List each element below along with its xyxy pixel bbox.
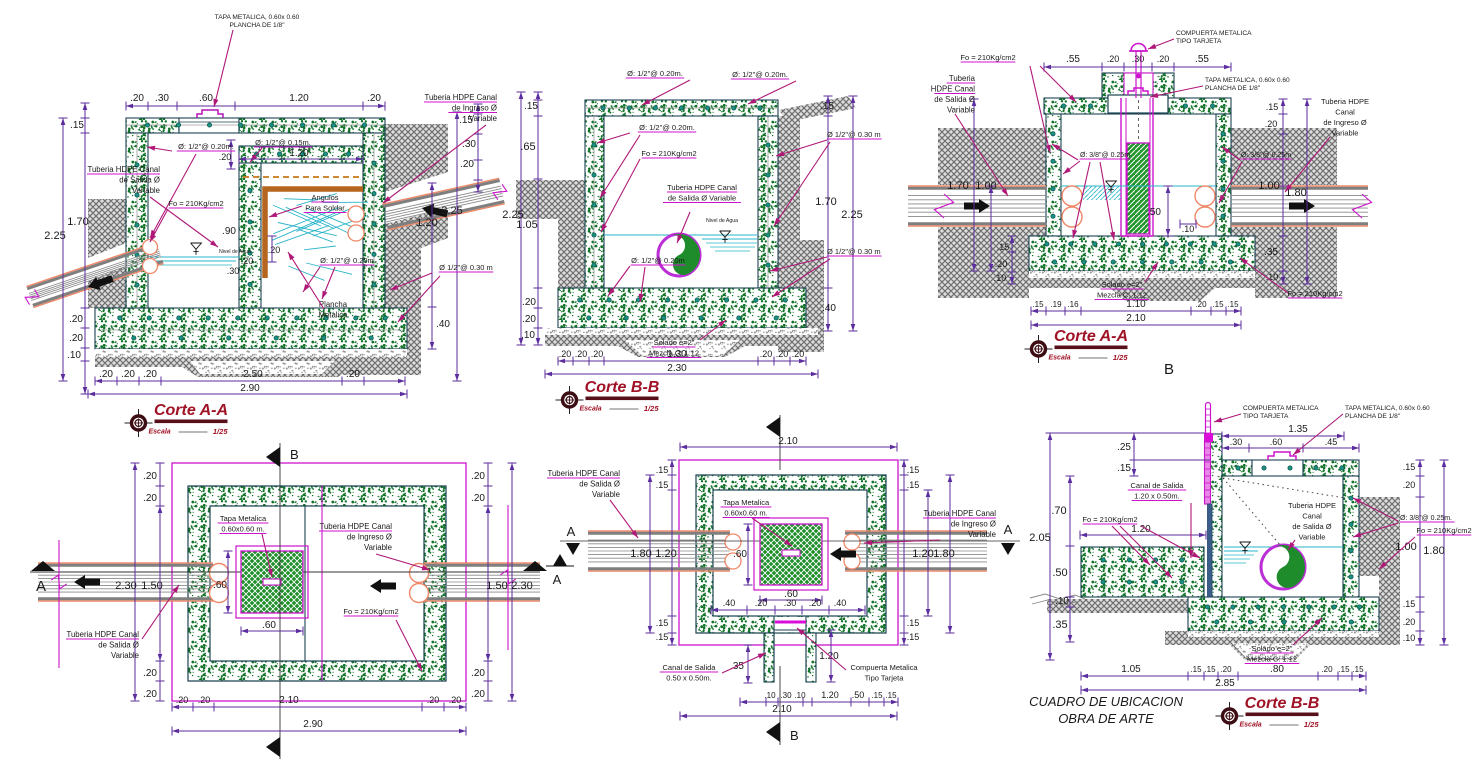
svg-text:Variable: Variable bbox=[469, 114, 497, 123]
svg-text:.20: .20 bbox=[522, 297, 536, 308]
dim right 180 C bbox=[1306, 99, 1308, 284]
water lines left chamber bbox=[150, 256, 240, 258]
inlet pipe C right bbox=[1231, 225, 1368, 227]
section axis B vertical D bbox=[279, 443, 281, 759]
svg-text:Ø: 1/2"@ 0.20m.: Ø: 1/2"@ 0.20m. bbox=[732, 70, 788, 79]
rebar dots right wall bbox=[372, 161, 376, 165]
svg-text:2.25: 2.25 bbox=[502, 209, 523, 221]
dim left chain C bbox=[1011, 236, 1013, 284]
rebar dots inner wall bbox=[248, 189, 252, 193]
dim 2.25 B left bbox=[520, 92, 522, 345]
svg-text:1.70: 1.70 bbox=[67, 216, 88, 228]
hatch under platform F bbox=[1047, 599, 1188, 613]
section axis A-A horizontal D bbox=[30, 571, 540, 573]
svg-text:B: B bbox=[1164, 361, 1174, 378]
leader tapa bbox=[214, 30, 233, 107]
solado gray band bbox=[95, 349, 407, 377]
svg-text:.20: .20 bbox=[219, 152, 232, 162]
leader solado F bbox=[1293, 618, 1322, 645]
dim left chain E bbox=[671, 460, 673, 645]
gate lower blade F bbox=[1208, 504, 1213, 597]
svg-text:2.50: 2.50 bbox=[243, 369, 263, 380]
dim top row F bbox=[1222, 447, 1359, 449]
leader Fo C bottom bbox=[1240, 258, 1288, 293]
dim 2.05 F bbox=[1049, 433, 1051, 660]
dim bottom row E bbox=[740, 701, 898, 703]
svg-text:.40: .40 bbox=[723, 598, 736, 608]
dim 1.80 right E bbox=[949, 475, 951, 633]
svg-text:.20: .20 bbox=[367, 93, 381, 104]
svg-text:1.20: 1.20 bbox=[821, 690, 839, 700]
plan inner area E bbox=[713, 490, 867, 616]
svg-text:.30: .30 bbox=[462, 139, 476, 150]
dim line left chain bbox=[84, 103, 86, 394]
svg-text:de Ingreso Ø: de Ingreso Ø bbox=[951, 520, 996, 529]
svg-text:Variable: Variable bbox=[592, 490, 620, 499]
pipe break left D bbox=[58, 540, 60, 668]
dim 1.80 left E bbox=[649, 475, 651, 633]
leader solado C bbox=[1145, 262, 1158, 282]
svg-text:2.90: 2.90 bbox=[303, 719, 323, 730]
svg-text:Nivel de Agua: Nivel de Agua bbox=[706, 218, 738, 224]
floor slab B bbox=[558, 288, 806, 328]
leader tuberia ingreso E bbox=[864, 540, 940, 543]
svg-text:Compuerta Metalica: Compuerta Metalica bbox=[850, 663, 918, 672]
outlet pipe C left bbox=[908, 225, 1046, 227]
rebar dots slab B bbox=[601, 106, 605, 110]
hatch earth right above pipe C bbox=[1231, 128, 1337, 185]
svg-text:.65: .65 bbox=[520, 141, 535, 153]
leader rebar 030 b bbox=[398, 276, 440, 322]
leader tapa D bbox=[262, 534, 272, 577]
svg-text:Fo = 210Kg/cm2: Fo = 210Kg/cm2 bbox=[641, 149, 696, 158]
leader B right top a bbox=[776, 140, 827, 156]
svg-text:Tuberia HDPE: Tuberia HDPE bbox=[1321, 97, 1369, 106]
hatch earth right below inlet pipe bbox=[385, 208, 448, 308]
leader rebar wall b bbox=[150, 154, 196, 238]
svg-text:Canal: Canal bbox=[1335, 108, 1355, 117]
dotted sight line F b bbox=[1223, 478, 1345, 498]
svg-text:.20: .20 bbox=[591, 349, 604, 359]
svg-text:.20: .20 bbox=[460, 159, 474, 170]
svg-text:.15: .15 bbox=[871, 691, 883, 700]
svg-text:.19: .19 bbox=[1050, 300, 1062, 309]
svg-text:.15: .15 bbox=[1266, 102, 1279, 112]
dim 1.20 right E bbox=[927, 490, 929, 616]
svg-text:.20: .20 bbox=[1220, 665, 1232, 674]
svg-text:de Salida Ø: de Salida Ø bbox=[98, 641, 139, 650]
svg-text:.20: .20 bbox=[1157, 54, 1170, 64]
svg-text:.50: .50 bbox=[1147, 207, 1161, 218]
rebar dots floor bbox=[118, 316, 122, 320]
rebar dots platform F bbox=[1101, 558, 1105, 562]
hatch earth right above inlet pipe bbox=[385, 124, 448, 192]
svg-text:.20: .20 bbox=[143, 369, 157, 380]
tapa handle F bbox=[1268, 452, 1296, 460]
svg-text:Canal de Salida: Canal de Salida bbox=[663, 663, 717, 672]
outlet pipe bell flange bbox=[143, 240, 158, 255]
dim bottom row2 E bbox=[680, 715, 897, 717]
svg-text:.60: .60 bbox=[213, 580, 227, 591]
svg-text:Ø 1/2"@ 0.30 m: Ø 1/2"@ 0.30 m bbox=[439, 263, 493, 272]
outlet pipe bells D bbox=[210, 564, 229, 583]
svg-text:1.20: 1.20 bbox=[655, 548, 676, 560]
leader angulos bbox=[269, 206, 302, 217]
svg-text:Ø: 1/2"@ 0.20m.: Ø: 1/2"@ 0.20m. bbox=[627, 69, 683, 78]
solado band F bbox=[1165, 631, 1379, 660]
leader compuerta C bbox=[1148, 39, 1174, 49]
hatch diagonal streak top right B bbox=[779, 96, 856, 122]
svg-text:.45: .45 bbox=[1325, 437, 1338, 447]
leader rebar floor a bbox=[303, 267, 320, 292]
svg-text:.15: .15 bbox=[1403, 462, 1416, 472]
section marker B top D bbox=[266, 447, 280, 467]
svg-text:Para Soldar: Para Soldar bbox=[305, 204, 345, 213]
svg-text:Variable: Variable bbox=[111, 651, 139, 660]
svg-text:1.80: 1.80 bbox=[933, 548, 954, 560]
svg-text:1/25: 1/25 bbox=[213, 427, 228, 436]
svg-text:COMPUERTA METALICA: COMPUERTA METALICA bbox=[1176, 30, 1252, 37]
water line C bbox=[1061, 185, 1216, 187]
svg-text:Canal: Canal bbox=[1302, 512, 1322, 521]
dim line 2.25 left bbox=[62, 118, 64, 381]
svg-text:.15: .15 bbox=[1117, 463, 1131, 474]
svg-text:Ø 1/2"@ 0.30 m: Ø 1/2"@ 0.30 m bbox=[827, 247, 881, 256]
svg-text:2.25: 2.25 bbox=[441, 205, 462, 217]
svg-text:TAPA METALICA, 0.60x 0.60: TAPA METALICA, 0.60x 0.60 bbox=[215, 14, 300, 21]
outlet yin-yang F bbox=[1261, 545, 1305, 589]
svg-text:Solado e=2": Solado e=2" bbox=[654, 338, 695, 347]
rebar dots floor F bbox=[1206, 605, 1210, 609]
svg-text:.50: .50 bbox=[852, 690, 865, 700]
dim .60 below square E bbox=[760, 599, 822, 601]
leader rebar right F b bbox=[1353, 523, 1398, 537]
water line F bbox=[1224, 546, 1343, 548]
outlet flow arrow C bbox=[964, 199, 990, 213]
top slab right segment F bbox=[1303, 460, 1359, 476]
canal opening in ring E bbox=[775, 617, 806, 632]
svg-text:Variable: Variable bbox=[947, 106, 975, 115]
pipe break right D bbox=[507, 505, 509, 650]
leader rebar gate c bbox=[1073, 162, 1090, 238]
dim .60 square left D bbox=[227, 551, 229, 613]
svg-text:.20: .20 bbox=[143, 493, 157, 504]
water hatch C bbox=[1083, 186, 1121, 200]
svg-text:Fo = 210Kg/cm2: Fo = 210Kg/cm2 bbox=[1287, 289, 1342, 298]
dim left ticks D bbox=[159, 463, 161, 506]
svg-text:0.60x0.60 m.: 0.60x0.60 m. bbox=[724, 509, 767, 518]
leader rebar wall B b bbox=[600, 135, 640, 198]
svg-text:.50: .50 bbox=[1052, 567, 1067, 579]
svg-text:.30: .30 bbox=[780, 691, 792, 700]
svg-text:.20: .20 bbox=[198, 695, 211, 705]
leader Fo C a bbox=[1040, 66, 1076, 102]
svg-text:.20: .20 bbox=[1195, 300, 1207, 309]
svg-text:.15: .15 bbox=[820, 101, 834, 112]
svg-text:de Salida Ø Variable: de Salida Ø Variable bbox=[668, 194, 736, 203]
svg-text:.15: .15 bbox=[907, 632, 920, 642]
svg-text:Tuberia HDPE Canal: Tuberia HDPE Canal bbox=[66, 630, 139, 639]
svg-text:.35: .35 bbox=[1264, 247, 1278, 258]
dotted sight line F a bbox=[1223, 478, 1281, 546]
svg-text:.15: .15 bbox=[907, 618, 920, 628]
svg-text:.55: .55 bbox=[1195, 54, 1209, 65]
svg-text:1.20: 1.20 bbox=[289, 148, 309, 159]
svg-text:COMPUERTA METALICA: COMPUERTA METALICA bbox=[1243, 405, 1319, 412]
svg-text:.15: .15 bbox=[524, 101, 538, 112]
outlet pipe flow arrow bbox=[88, 275, 114, 290]
svg-text:.60: .60 bbox=[733, 549, 747, 560]
svg-text:1.70: 1.70 bbox=[947, 180, 968, 192]
svg-text:.10: .10 bbox=[1182, 224, 1195, 234]
svg-text:.20: .20 bbox=[121, 369, 135, 380]
floor slab F bbox=[1188, 597, 1379, 631]
inlet flow arrow D bbox=[370, 579, 396, 593]
svg-text:.20: .20 bbox=[471, 471, 485, 482]
dim right chain E bbox=[903, 460, 905, 645]
svg-text:Ø: 1/2"@ 0.20m: Ø: 1/2"@ 0.20m bbox=[631, 256, 685, 265]
svg-text:1/25: 1/25 bbox=[1113, 353, 1128, 362]
tapa handle D bbox=[263, 579, 281, 585]
svg-text:CUADRO DE UBICACION: CUADRO DE UBICACION bbox=[1029, 694, 1183, 709]
svg-text:TIPO TARJETA: TIPO TARJETA bbox=[1176, 38, 1222, 45]
dim 50 gate C bbox=[1167, 186, 1169, 236]
inner dividing wall bbox=[239, 163, 261, 310]
svg-text:1.20: 1.20 bbox=[416, 217, 437, 229]
svg-text:.20: .20 bbox=[130, 93, 144, 104]
rebar dots right wall F bbox=[1349, 496, 1353, 500]
svg-text:.10: .10 bbox=[1055, 596, 1069, 607]
dim left 170 C bbox=[973, 99, 975, 271]
rebar dots right wall C bbox=[1221, 132, 1225, 136]
rebar line slab B bbox=[585, 107, 778, 109]
rebar dots floor B bbox=[578, 298, 582, 302]
dim left 100 C bbox=[990, 186, 992, 271]
svg-text:.60: .60 bbox=[199, 93, 213, 104]
svg-text:Tuberia HDPE Canal: Tuberia HDPE Canal bbox=[923, 509, 996, 518]
leader tuberia salida E bbox=[610, 500, 638, 538]
svg-text:.20: .20 bbox=[427, 695, 440, 705]
svg-text:.20: .20 bbox=[69, 314, 83, 325]
leader compuerta E bbox=[797, 628, 846, 670]
solado stipple trapezoid bbox=[190, 361, 335, 374]
rebar line top slab bbox=[126, 124, 385, 126]
leader tapa F bbox=[1293, 414, 1343, 455]
svg-text:Tuberia: Tuberia bbox=[949, 74, 976, 83]
leader canal salida E bbox=[722, 653, 766, 673]
svg-text:.30: .30 bbox=[155, 93, 169, 104]
rebar dots left wall C bbox=[1051, 132, 1055, 136]
dim line right 2.25 bbox=[456, 112, 458, 381]
svg-text:de Ingreso Ø: de Ingreso Ø bbox=[347, 533, 392, 542]
svg-text:A: A bbox=[1004, 522, 1013, 537]
dim row top C bbox=[1044, 66, 1231, 68]
svg-text:.90: .90 bbox=[222, 226, 236, 237]
svg-text:.20: .20 bbox=[522, 314, 536, 325]
svg-text:.35: .35 bbox=[1052, 619, 1067, 631]
gate top block F bbox=[1204, 433, 1213, 442]
svg-text:Corte B-B: Corte B-B bbox=[1245, 695, 1320, 712]
svg-text:Canal de Salida: Canal de Salida bbox=[1131, 481, 1185, 490]
rebar dots slab F bbox=[1236, 466, 1240, 470]
svg-text:.20: .20 bbox=[143, 668, 157, 679]
svg-text:Metalica: Metalica bbox=[318, 311, 348, 320]
inlet pipe break symbol bbox=[493, 184, 507, 199]
outlet break C bbox=[934, 194, 953, 218]
right wall bbox=[363, 133, 385, 310]
inlet pipe bells E bbox=[844, 534, 860, 550]
dim 1.35 top F bbox=[1222, 435, 1344, 437]
svg-text:2.05: 2.05 bbox=[1029, 532, 1050, 544]
svg-text:.55: .55 bbox=[1066, 54, 1080, 65]
inlet pipe bells D bbox=[410, 564, 429, 583]
leader rebar top1 B bbox=[642, 80, 690, 105]
dim right ticks D bbox=[487, 463, 489, 506]
dim row bottom 2 bbox=[88, 393, 407, 395]
svg-text:Fo = 210Kg/cm2: Fo = 210Kg/cm2 bbox=[960, 53, 1015, 62]
svg-text:.20: .20 bbox=[559, 349, 572, 359]
svg-text:1.70: 1.70 bbox=[815, 196, 836, 208]
svg-text:.20: .20 bbox=[143, 689, 157, 700]
svg-text:2.10: 2.10 bbox=[772, 704, 792, 715]
svg-text:Ø: 3/8"@ 0.25m.: Ø: 3/8"@ 0.25m. bbox=[1400, 515, 1452, 522]
svg-text:2.30: 2.30 bbox=[115, 580, 136, 592]
svg-text:.15: .15 bbox=[1352, 665, 1364, 674]
svg-text:.15: .15 bbox=[1338, 665, 1350, 674]
dim 1.80 right F bbox=[1443, 460, 1445, 645]
dim 2.10 top E bbox=[680, 446, 897, 448]
water line B bbox=[604, 234, 758, 236]
leader canal salida F bbox=[1190, 503, 1192, 558]
right wall F bbox=[1343, 476, 1359, 597]
rebar dots left wall bbox=[135, 163, 139, 167]
outlet pipe HDPE left bbox=[34, 263, 164, 307]
svg-text:0.60x0.60 m.: 0.60x0.60 m. bbox=[221, 525, 264, 534]
svg-text:0.50 x 0.50m.: 0.50 x 0.50m. bbox=[666, 674, 711, 683]
svg-text:1.80: 1.80 bbox=[1423, 545, 1444, 557]
svg-text:2.30: 2.30 bbox=[511, 580, 532, 592]
solado band B bbox=[545, 328, 818, 357]
rebar line left wall B bbox=[593, 116, 595, 288]
svg-text:A: A bbox=[36, 578, 46, 595]
rebar line left wall bbox=[136, 133, 138, 308]
gate channel top block bbox=[1124, 73, 1153, 98]
svg-text:TAPA METALICA, 0.60x 0.60: TAPA METALICA, 0.60x 0.60 bbox=[1345, 405, 1430, 412]
leader tuberia salida F bbox=[1288, 540, 1295, 550]
svg-text:Tuberia HDPE Canal: Tuberia HDPE Canal bbox=[424, 93, 497, 102]
svg-text:1.20: 1.20 bbox=[289, 93, 309, 104]
gate stem bbox=[1135, 51, 1137, 98]
dim bottom row C bbox=[1031, 310, 1241, 312]
gate upper strip F bbox=[1205, 442, 1211, 504]
svg-text:Tuberia HDPE Canal: Tuberia HDPE Canal bbox=[547, 469, 620, 478]
svg-text:de Ingreso Ø: de Ingreso Ø bbox=[1323, 118, 1367, 127]
svg-text:Ø: 1/2"@ 0.20m.: Ø: 1/2"@ 0.20m. bbox=[639, 123, 695, 132]
partition line blue D bbox=[304, 506, 306, 661]
leader rebar gate d bbox=[1100, 162, 1114, 240]
plan inner area D bbox=[210, 506, 424, 661]
svg-text:.15: .15 bbox=[70, 120, 84, 131]
svg-text:Ø: 1/2"@ 0.20m: Ø: 1/2"@ 0.20m bbox=[320, 256, 374, 265]
svg-text:.20: .20 bbox=[241, 256, 254, 266]
leader rebar gate b bbox=[1063, 161, 1080, 174]
dim bottom row2 B bbox=[545, 373, 818, 375]
tapa handle E bbox=[782, 550, 800, 556]
leader tapa C bbox=[1150, 86, 1203, 97]
svg-text:de Salida Ø: de Salida Ø bbox=[934, 95, 975, 104]
svg-text:Tapa Metalica: Tapa Metalica bbox=[723, 498, 770, 507]
leader rebar right b bbox=[1219, 162, 1242, 203]
leader rebar wall a bbox=[147, 147, 172, 151]
leader B right bottom b bbox=[772, 259, 830, 297]
top slab C bbox=[1044, 98, 1231, 114]
tapa square green D bbox=[241, 551, 303, 613]
tapa metalica handle bbox=[197, 110, 223, 118]
rebar dots top slab bbox=[145, 123, 149, 127]
outlet pipe bells C bbox=[1062, 186, 1082, 206]
svg-text:.20: .20 bbox=[471, 493, 485, 504]
svg-text:Nivel de Agua: Nivel de Agua bbox=[219, 249, 251, 255]
hatch earth right below pipe C bbox=[1231, 227, 1337, 298]
svg-text:1.80: 1.80 bbox=[630, 548, 651, 560]
section axis B vertical E bbox=[779, 415, 781, 470]
right wall C bbox=[1216, 114, 1231, 236]
svg-text:Escala: Escala bbox=[1049, 355, 1071, 362]
svg-text:.40: .40 bbox=[822, 303, 836, 314]
svg-text:.10: .10 bbox=[764, 691, 776, 700]
leader tapa E bbox=[752, 518, 792, 546]
svg-text:.30: .30 bbox=[227, 266, 240, 276]
marker B top E bbox=[766, 417, 780, 437]
leader Fo F left a bbox=[1112, 526, 1150, 565]
svg-text:1.20: 1.20 bbox=[819, 651, 839, 662]
leader tuberia ingreso A bbox=[383, 125, 486, 203]
leader rebar floor b bbox=[322, 267, 335, 299]
svg-text:.15: .15 bbox=[1227, 300, 1239, 309]
svg-text:.20: .20 bbox=[471, 689, 485, 700]
hatch earth below outlet pipe left bbox=[88, 266, 126, 308]
nivel symbol C bbox=[1106, 181, 1117, 187]
gate bottom line bbox=[1121, 235, 1153, 237]
dim row top bbox=[126, 105, 385, 107]
svg-text:.15: .15 bbox=[656, 465, 669, 475]
svg-text:Ø 1/2"@ 0.30 m: Ø 1/2"@ 0.30 m bbox=[827, 130, 881, 139]
inlet pipe plan D bbox=[424, 562, 540, 564]
tapa square outer D bbox=[236, 546, 308, 618]
leader tuberia salida D bbox=[142, 585, 179, 639]
svg-text:.10: .10 bbox=[994, 273, 1007, 283]
svg-text:TIPO TARJETA: TIPO TARJETA bbox=[1243, 413, 1289, 420]
svg-text:1.20 x 0.50m.: 1.20 x 0.50m. bbox=[1134, 492, 1179, 501]
svg-text:Solado e=2": Solado e=2" bbox=[1252, 644, 1293, 653]
svg-text:.10: .10 bbox=[794, 691, 806, 700]
outlet pipe plan E bbox=[588, 530, 730, 532]
dim bottom row2 F bbox=[1081, 689, 1366, 691]
svg-text:.15: .15 bbox=[656, 618, 669, 628]
leader Fo C b bbox=[1030, 66, 1050, 153]
svg-text:.20: .20 bbox=[1403, 617, 1416, 627]
svg-text:1/25: 1/25 bbox=[1304, 720, 1319, 729]
dim bottom row2 D bbox=[172, 730, 466, 732]
svg-text:.80: .80 bbox=[1270, 664, 1284, 675]
svg-text:.15: .15 bbox=[1403, 599, 1416, 609]
svg-text:.20: .20 bbox=[760, 349, 773, 359]
tapa square green E bbox=[760, 524, 822, 585]
gate frame inner bbox=[1125, 98, 1127, 236]
svg-text:.15: .15 bbox=[1212, 300, 1224, 309]
dim right chain C bbox=[1282, 99, 1284, 284]
leader Fo F right bbox=[1379, 537, 1415, 569]
